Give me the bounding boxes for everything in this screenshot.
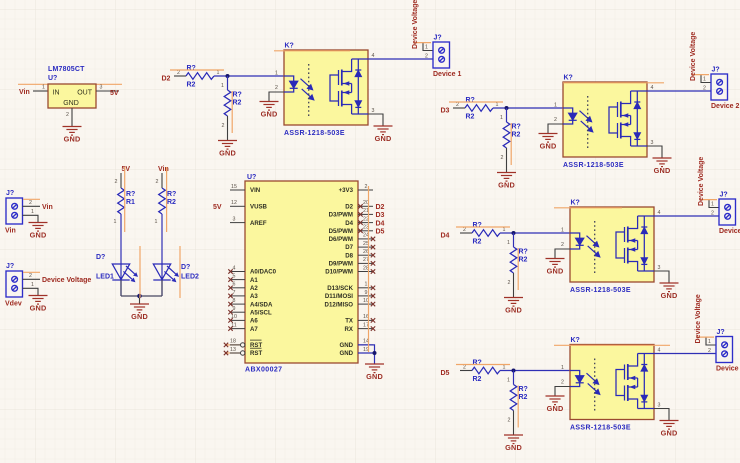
svg-text:GND: GND	[339, 350, 353, 357]
drive circuit (series R, pulldown R, ground) for channel 3	[460, 222, 570, 314]
relay K? ASSR-1218-503E #2	[539, 75, 672, 175]
svg-text:A5/SCL: A5/SCL	[250, 309, 272, 316]
svg-text:D?: D?	[181, 264, 190, 271]
pin 14 GND	[339, 339, 373, 349]
pin 1 wire	[23, 288, 39, 295]
orange mark beside pulldown resistor	[517, 248, 519, 290]
svg-text:2: 2	[29, 273, 32, 279]
relay K? ASSR-1218-503E #1	[260, 43, 393, 143]
orange mark above drive resistor	[456, 226, 510, 228]
svg-text:1: 1	[365, 282, 368, 288]
svg-text:RX: RX	[345, 326, 354, 333]
pin 2 wire	[23, 205, 41, 207]
svg-text:D3: D3	[376, 212, 385, 219]
wire relay pin 4 to device connector	[654, 215, 719, 217]
svg-text:D12/MISO: D12/MISO	[325, 301, 354, 308]
orange mark above drive resistor	[449, 101, 503, 103]
pin 7 A3	[228, 290, 258, 300]
wire to ground	[139, 296, 141, 304]
svg-text:5V: 5V	[213, 204, 222, 211]
pin 17 RX	[345, 322, 376, 332]
svg-text:18: 18	[230, 339, 236, 345]
wire relay pin 4 to device connector	[654, 353, 716, 355]
svg-text:Vin: Vin	[5, 228, 16, 235]
orange mark beside pulldown resistor	[510, 123, 512, 165]
pin 1 D13/SCK	[327, 282, 375, 292]
resistor R2	[159, 188, 166, 214]
svg-text:Device Voltage: Device Voltage	[695, 294, 702, 343]
orange mark above drive resistor	[456, 364, 510, 366]
orange mark at relay top	[274, 50, 350, 52]
svg-text:Device Voltage: Device Voltage	[412, 0, 419, 49]
svg-text:12: 12	[231, 200, 237, 206]
svg-text:1: 1	[114, 219, 117, 225]
orange mark right of mcu	[368, 186, 370, 352]
pin 20 D2	[345, 200, 373, 210]
pin 4 A0/DAC0	[228, 265, 276, 275]
svg-text:Vin: Vin	[42, 204, 53, 211]
pin 10 D12/MISO	[325, 298, 376, 308]
orange mark beside pulldown resistor	[517, 386, 519, 428]
svg-text:A4/SDA: A4/SDA	[250, 301, 273, 308]
svg-text:D2: D2	[376, 204, 385, 211]
svg-text:1: 1	[31, 282, 34, 288]
orange mark at device connector	[700, 199, 717, 201]
svg-text:Device 4: Device 4	[716, 366, 740, 373]
svg-text:R2: R2	[167, 199, 176, 206]
svg-text:D3/PWM: D3/PWM	[329, 212, 353, 219]
ground under regulator	[63, 127, 82, 144]
junction	[373, 351, 377, 355]
svg-text:9: 9	[233, 306, 236, 312]
junction	[137, 294, 142, 299]
svg-text:A3: A3	[250, 293, 258, 300]
wire	[161, 173, 163, 188]
svg-text:5: 5	[233, 273, 236, 279]
orange mark	[23, 271, 40, 273]
svg-text:Vin: Vin	[19, 89, 30, 96]
orange mark across regulator	[18, 83, 122, 85]
pin 5 A1	[228, 273, 258, 283]
wire	[161, 280, 163, 296]
svg-text:TX: TX	[345, 318, 354, 325]
svg-text:5V: 5V	[110, 90, 119, 97]
drive circuit (series R, pulldown R, ground) for channel 2	[453, 97, 563, 189]
pin 25 D7	[345, 241, 375, 251]
connector J? Vin	[5, 190, 23, 235]
svg-text:RST: RST	[250, 350, 262, 357]
svg-text:R1: R1	[126, 199, 135, 206]
svg-text:Vdev: Vdev	[5, 301, 22, 308]
relay K? ASSR-1218-503E #4	[546, 337, 679, 437]
pin 13 RST	[224, 347, 263, 357]
svg-text:D13/SCK: D13/SCK	[327, 285, 353, 292]
svg-text:3: 3	[100, 85, 103, 91]
svg-text:D?: D?	[96, 254, 105, 261]
pin 2 wire	[71, 108, 73, 127]
svg-text:D6/PWM: D6/PWM	[329, 236, 353, 243]
device connector J? #2	[701, 67, 728, 101]
pin 3 AREF	[230, 216, 267, 226]
svg-text:Device Voltage: Device Voltage	[698, 157, 705, 206]
svg-text:D3: D3	[441, 108, 450, 115]
svg-text:D8: D8	[345, 252, 353, 259]
connector J? Vdev	[5, 263, 23, 308]
wire joining LEDs	[121, 295, 162, 297]
relay K? ASSR-1218-503E #3	[546, 200, 679, 300]
ground under mcu	[365, 364, 384, 381]
pin 12 VUSB	[230, 200, 268, 210]
svg-text:2: 2	[156, 179, 159, 185]
svg-text:Device Voltage: Device Voltage	[42, 277, 91, 284]
svg-text:5V: 5V	[122, 166, 131, 173]
svg-text:D5: D5	[441, 370, 450, 377]
svg-text:Device 1: Device 1	[433, 71, 462, 78]
pin 26 D8	[345, 249, 375, 259]
svg-text:LED2: LED2	[181, 274, 199, 281]
svg-text:D9/PWM: D9/PWM	[329, 261, 353, 268]
svg-text:D11/MOSI: D11/MOSI	[325, 293, 353, 300]
pin 24 D6/PWM	[329, 233, 376, 243]
device connector J? #3	[709, 192, 736, 226]
svg-text:U?: U?	[247, 174, 256, 181]
svg-text:D4: D4	[441, 233, 450, 240]
svg-text:1: 1	[31, 209, 34, 215]
svg-text:9: 9	[365, 290, 368, 296]
pin 9 D11/MOSI	[325, 290, 375, 300]
svg-text:R?: R?	[126, 191, 135, 198]
pin 10 A6	[228, 314, 258, 324]
svg-text:D4: D4	[376, 220, 385, 227]
wire	[33, 90, 48, 92]
pin 28 D10/PWM	[325, 265, 375, 275]
svg-text:8: 8	[233, 298, 236, 304]
svg-text:R?: R?	[167, 191, 176, 198]
orange mark	[23, 198, 40, 200]
svg-text:2: 2	[29, 200, 32, 206]
svg-text:OUT: OUT	[77, 90, 93, 97]
pin 6 A2	[228, 282, 258, 292]
svg-text:D4: D4	[345, 220, 353, 227]
ground under LEDs	[130, 304, 149, 321]
svg-text:7: 7	[233, 290, 236, 296]
svg-text:VIN: VIN	[250, 187, 260, 194]
orange mark at relay top	[563, 82, 664, 84]
orange mark at relay top	[554, 207, 622, 209]
svg-text:A0/DAC0: A0/DAC0	[250, 269, 277, 276]
orange mark at device connector	[697, 336, 714, 338]
svg-text:2: 2	[66, 112, 69, 118]
LED D? LED2	[153, 264, 170, 280]
svg-text:2: 2	[115, 179, 118, 185]
svg-text:1: 1	[42, 85, 45, 91]
mcu body	[245, 181, 358, 363]
orange mark at device connector	[692, 74, 709, 76]
wire relay pin 4 to device connector	[647, 90, 711, 92]
pin 27 D9/PWM	[329, 257, 376, 267]
pin 8 A4/SDA	[228, 298, 273, 308]
device connector J? #1	[423, 35, 450, 69]
svg-text:6: 6	[233, 282, 236, 288]
svg-text:IN: IN	[53, 90, 60, 97]
pin 3 wire	[96, 90, 119, 92]
svg-text:+3V3: +3V3	[339, 187, 354, 194]
svg-text:A7: A7	[250, 326, 258, 333]
pin 1 wire	[23, 215, 39, 222]
pin 19 GND	[339, 347, 373, 357]
pin 23 D5/PWM	[329, 225, 373, 235]
svg-text:A6: A6	[250, 318, 258, 325]
wire relay pin 4 to device connector	[368, 58, 433, 60]
pin 21 D3/PWM	[329, 208, 373, 218]
svg-text:A2: A2	[250, 285, 258, 292]
svg-text:D5/PWM: D5/PWM	[329, 228, 353, 235]
svg-text:J?: J?	[6, 190, 14, 197]
pin 9 A5/SCL	[228, 306, 272, 316]
svg-text:D10/PWM: D10/PWM	[325, 269, 353, 276]
pin 2 wire	[23, 278, 41, 280]
svg-text:3: 3	[233, 216, 236, 222]
svg-text:U?: U?	[48, 75, 57, 82]
svg-text:D7: D7	[345, 244, 353, 251]
orange mark at device connector	[414, 42, 431, 44]
voltage regulator U1 LM7805CT	[48, 84, 96, 108]
orange mark beside pulldown resistor	[231, 91, 233, 133]
LED D? LED1	[112, 264, 129, 280]
drive circuit (series R, pulldown R, ground) for channel 1	[174, 65, 284, 157]
pin 18 RST	[224, 339, 263, 349]
pin 2 +3V3	[339, 184, 373, 194]
pin 16 TX	[345, 314, 375, 324]
wire	[161, 214, 163, 296]
svg-text:D2: D2	[345, 204, 353, 211]
resistor R1	[118, 188, 125, 214]
device connector J? #4	[706, 329, 733, 363]
wire	[120, 280, 122, 296]
svg-text:Device 2: Device 2	[711, 103, 740, 110]
svg-text:GND: GND	[339, 342, 353, 349]
svg-text:D2: D2	[162, 76, 171, 83]
ground at connector	[29, 223, 48, 240]
ground at connector	[29, 296, 48, 313]
svg-text:D5: D5	[376, 229, 385, 236]
wire	[120, 214, 122, 296]
drive circuit (series R, pulldown R, ground) for channel 4	[460, 360, 570, 452]
pin 22 D4	[345, 216, 373, 226]
svg-text:1: 1	[155, 219, 158, 225]
svg-text:AREF: AREF	[250, 220, 267, 227]
svg-text:A1: A1	[250, 277, 258, 284]
svg-text:2: 2	[365, 184, 368, 190]
svg-text:GND: GND	[63, 100, 79, 107]
svg-text:15: 15	[231, 184, 237, 190]
svg-text:J?: J?	[6, 263, 14, 270]
pin 15 VIN	[230, 184, 260, 194]
pin 11 A7	[228, 322, 258, 332]
svg-text:Device Voltage: Device Voltage	[690, 32, 697, 81]
svg-text:LM7805CT: LM7805CT	[48, 66, 85, 73]
svg-text:13: 13	[230, 347, 236, 353]
wire GND pins to ground	[358, 345, 375, 364]
orange mark at relay top	[554, 344, 670, 346]
orange marks near LED branches	[124, 167, 126, 232]
svg-text:LED1: LED1	[96, 274, 114, 281]
svg-text:4: 4	[233, 265, 236, 271]
wire	[120, 173, 122, 188]
svg-text:Device 3: Device 3	[719, 228, 740, 235]
orange mark above drive resistor	[170, 69, 224, 71]
svg-text:ABX00027: ABX00027	[245, 367, 282, 374]
svg-text:VUSB: VUSB	[250, 204, 268, 211]
